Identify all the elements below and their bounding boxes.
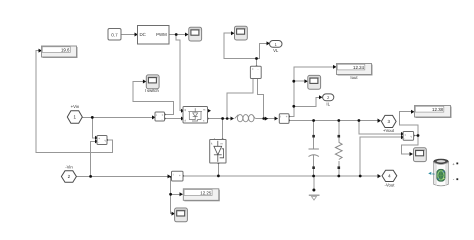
svg-text:19.6: 19.6 xyxy=(61,47,70,52)
svg-text:-: - xyxy=(98,141,99,145)
svg-text:-: - xyxy=(258,67,259,71)
svg-text:VL: VL xyxy=(273,48,279,53)
svg-text:-: - xyxy=(453,177,455,182)
svg-text:12.24: 12.24 xyxy=(353,65,365,70)
svg-text:-Vout: -Vout xyxy=(384,182,395,187)
svg-text:+: + xyxy=(286,115,288,119)
svg-text:-Vin: -Vin xyxy=(65,164,73,169)
svg-text:+: + xyxy=(179,174,181,178)
svg-text:m: m xyxy=(432,172,435,176)
svg-text:12.38: 12.38 xyxy=(432,107,444,112)
svg-text:+Vin: +Vin xyxy=(71,104,80,109)
svg-text:DC: DC xyxy=(140,32,146,37)
svg-text:0.7: 0.7 xyxy=(111,32,118,37)
svg-text:+: + xyxy=(252,67,254,71)
svg-text:-: - xyxy=(162,118,163,122)
svg-text:PWM: PWM xyxy=(156,32,167,37)
svg-text:-: - xyxy=(404,137,405,141)
svg-text:Iout: Iout xyxy=(350,75,358,80)
svg-text:IL: IL xyxy=(326,101,330,106)
svg-text:12.25: 12.25 xyxy=(200,190,212,195)
svg-text:+Vout: +Vout xyxy=(383,128,395,133)
svg-text:+: + xyxy=(452,161,455,166)
svg-text:I switch: I switch xyxy=(145,88,160,93)
svg-text:+: + xyxy=(162,113,164,117)
